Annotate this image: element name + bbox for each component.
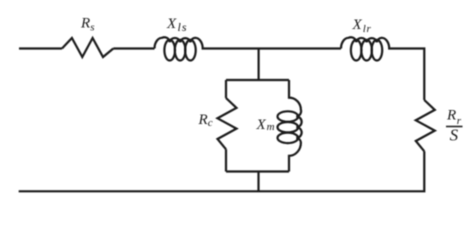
svg-text:s: s xyxy=(90,22,94,34)
inductor Xlr xyxy=(341,37,395,60)
resistor Rc xyxy=(218,98,237,149)
resistor Rr xyxy=(416,100,435,151)
wire between Xls and Xlr xyxy=(208,47,341,49)
svg-text:X: X xyxy=(166,16,177,32)
svg-text:m: m xyxy=(267,121,275,133)
resistor Rs xyxy=(62,38,113,57)
wire left branch top xyxy=(225,80,227,98)
svg-text:ls: ls xyxy=(178,20,188,34)
inductor Xls xyxy=(155,37,209,60)
svg-text:R: R xyxy=(198,112,208,128)
svg-text:X: X xyxy=(352,17,363,33)
inductor Xm xyxy=(278,80,302,172)
fraction bar of Rr/S xyxy=(446,126,463,128)
wire parallel-section top bar xyxy=(226,79,289,81)
wire left branch bottom xyxy=(225,149,227,171)
svg-text:S: S xyxy=(450,126,459,145)
wire center stem to bottom xyxy=(257,172,259,192)
svg-text:R: R xyxy=(446,108,456,124)
wire between Rs and Xls xyxy=(113,47,154,49)
wire top-left segment xyxy=(19,47,62,49)
wire top-right with corner down xyxy=(395,49,425,101)
svg-text:lr: lr xyxy=(363,23,372,35)
wire center drop from top xyxy=(258,49,260,81)
svg-text:c: c xyxy=(208,117,213,129)
wire right-bottom corner and bottom wire xyxy=(19,151,425,191)
svg-text:R: R xyxy=(80,16,90,32)
wire parallel-section bottom bar xyxy=(226,170,289,172)
svg-text:X: X xyxy=(256,117,267,133)
